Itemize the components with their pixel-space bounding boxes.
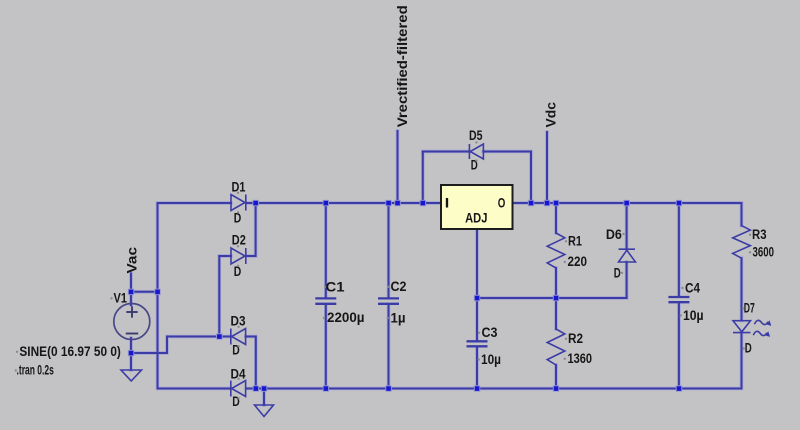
wire C1 branch <box>325 203 327 297</box>
resistor R1 <box>547 233 565 268</box>
svg-text:1360: 1360 <box>568 351 593 366</box>
anchor marker dots <box>15 141 752 399</box>
junction C2 top <box>386 200 392 206</box>
wire bottom rail right (D4 anode to R3/D7 corner) <box>247 388 742 390</box>
wire ADJ node horizontal <box>477 297 627 299</box>
junction Vrectified-filtered tap <box>395 200 401 206</box>
svg-text:C3: C3 <box>482 325 498 340</box>
junction D1/D2 cathodes at top rail <box>253 200 259 206</box>
svg-text:2200µ: 2200µ <box>327 310 365 325</box>
wire Vac label stub <box>130 274 132 292</box>
voltage source V1 <box>114 304 150 340</box>
wire AC2 vertical <box>218 256 220 337</box>
junction D5 cathode leg <box>420 200 426 206</box>
junction C3 bottom <box>474 386 480 392</box>
wire D3 row and anode dropper <box>219 336 230 338</box>
svg-text:R2: R2 <box>568 331 583 346</box>
junction Vac/AC1 node <box>155 289 161 295</box>
wire halo underlay <box>131 131 742 405</box>
junction C1 bottom <box>323 386 329 392</box>
svg-text:D5: D5 <box>469 128 483 143</box>
wire regulator ADJ pin vertical to C3 <box>476 229 478 340</box>
wire bottom rail left (AC1 to D4 cathode) <box>158 388 231 390</box>
junction D6 top <box>624 200 630 206</box>
wire V1 bottom pin <box>130 338 132 353</box>
diode D6 <box>619 249 636 262</box>
svg-text:.tran 0.2s: .tran 0.2s <box>17 363 54 378</box>
svg-text:1µ: 1µ <box>391 311 406 326</box>
capacitor C4 <box>668 297 689 302</box>
resistor R3 <box>733 226 751 259</box>
junction D3/D4 anodes at bottom rail <box>253 386 259 392</box>
junction R1/R2 divider node <box>553 295 559 301</box>
ground under V1 <box>121 370 142 381</box>
wire R3 branch top <box>741 203 743 226</box>
junction R1 top <box>553 200 559 206</box>
svg-text:Vdc: Vdc <box>544 101 559 127</box>
regulator U1 box <box>441 185 513 229</box>
LED D7 <box>733 321 751 333</box>
svg-text:C2: C2 <box>391 279 407 294</box>
svg-text:D7: D7 <box>744 300 755 315</box>
svg-text:SINE(0 16.97 50 0): SINE(0 16.97 50 0) <box>19 344 121 359</box>
wire C2 branch <box>388 203 390 297</box>
svg-text:D: D <box>232 394 240 409</box>
diode D4 <box>231 381 246 397</box>
svg-text:R1: R1 <box>568 234 582 249</box>
junction D5 anode leg <box>528 200 534 206</box>
wire R1 to ADJ node <box>555 268 557 298</box>
wire V1 plus node horizontal <box>131 291 158 293</box>
junction ground tap bottom rail <box>261 386 267 392</box>
diode D2 <box>231 248 246 264</box>
ground on bottom rail <box>255 405 274 417</box>
wire V1 minus to AC2 (stepped) <box>131 337 219 354</box>
junction ADJ pin node <box>474 295 480 301</box>
wire D7 to bottom rail <box>741 333 743 389</box>
wire R2 top <box>555 298 557 329</box>
wire AC1 vertical <box>157 203 159 389</box>
svg-text:O: O <box>498 196 506 211</box>
junction V1 minus node <box>128 350 134 356</box>
wire V1 top pin <box>130 292 132 305</box>
wire C4 branch <box>678 203 680 296</box>
diode D5 <box>469 144 483 159</box>
svg-text:V1: V1 <box>114 290 128 305</box>
svg-text:D6: D6 <box>606 227 622 242</box>
resistor R2 <box>547 329 565 365</box>
svg-text:D: D <box>745 341 752 356</box>
wire C3 bottom to rail <box>476 347 478 388</box>
wire top rail mid (D1 cathode to regulator input) <box>247 202 441 204</box>
svg-text:Vrectified-filtered: Vrectified-filtered <box>395 5 410 127</box>
svg-text:D: D <box>614 265 621 280</box>
svg-text:R3: R3 <box>752 227 767 242</box>
wire ground stub under V1 <box>130 353 132 370</box>
wire R2 bottom <box>555 365 557 389</box>
svg-text:D: D <box>232 342 240 357</box>
wire ground stub on bottom rail <box>263 389 265 406</box>
wire D5 row right <box>483 151 531 153</box>
wire D2 row and cathode riser <box>219 255 231 257</box>
wire D5 right leg <box>530 152 532 204</box>
wire R3 to D7 <box>741 258 743 320</box>
junction C2 bottom <box>386 386 392 392</box>
junction C4 bottom <box>676 386 682 392</box>
junction C4 top <box>676 200 682 206</box>
capacitor C3 <box>467 341 488 346</box>
svg-text:Vac: Vac <box>125 246 140 273</box>
wire D5 row left <box>423 151 470 153</box>
wire top rail right (regulator output to R3 corner) <box>513 202 742 204</box>
svg-text:D2: D2 <box>232 232 246 247</box>
diode D3 <box>231 329 246 345</box>
wire top rail left (AC1 corner to D1 anode) <box>158 202 232 204</box>
svg-text:I: I <box>445 196 450 211</box>
capacitor C2 <box>378 298 399 303</box>
svg-text:C1: C1 <box>326 280 346 295</box>
LED D7 light arrows <box>753 320 771 337</box>
svg-text:10µ: 10µ <box>481 352 501 367</box>
wire Vdc label stub <box>546 132 548 203</box>
junction R2 bottom <box>553 386 559 392</box>
wire Vrectified-filtered label stub <box>397 131 399 203</box>
svg-text:3600: 3600 <box>753 245 775 260</box>
junction C1 top <box>323 200 329 206</box>
junction Vdc tap <box>544 200 550 206</box>
capacitor C1 <box>315 298 336 303</box>
junction V1 plus node <box>128 289 134 295</box>
wire D6 branch top <box>626 203 628 249</box>
wire R1 branch top <box>555 203 557 233</box>
svg-text:220: 220 <box>568 254 588 269</box>
svg-text:10µ: 10µ <box>683 308 704 323</box>
wire D5 left leg <box>422 152 424 204</box>
wire D6 branch bottom to ADJ node <box>626 262 628 298</box>
svg-text:C4: C4 <box>685 281 700 296</box>
junction AC2/D3 cathode <box>217 334 223 340</box>
diode D1 <box>231 195 246 211</box>
svg-text:ADJ: ADJ <box>465 211 487 226</box>
